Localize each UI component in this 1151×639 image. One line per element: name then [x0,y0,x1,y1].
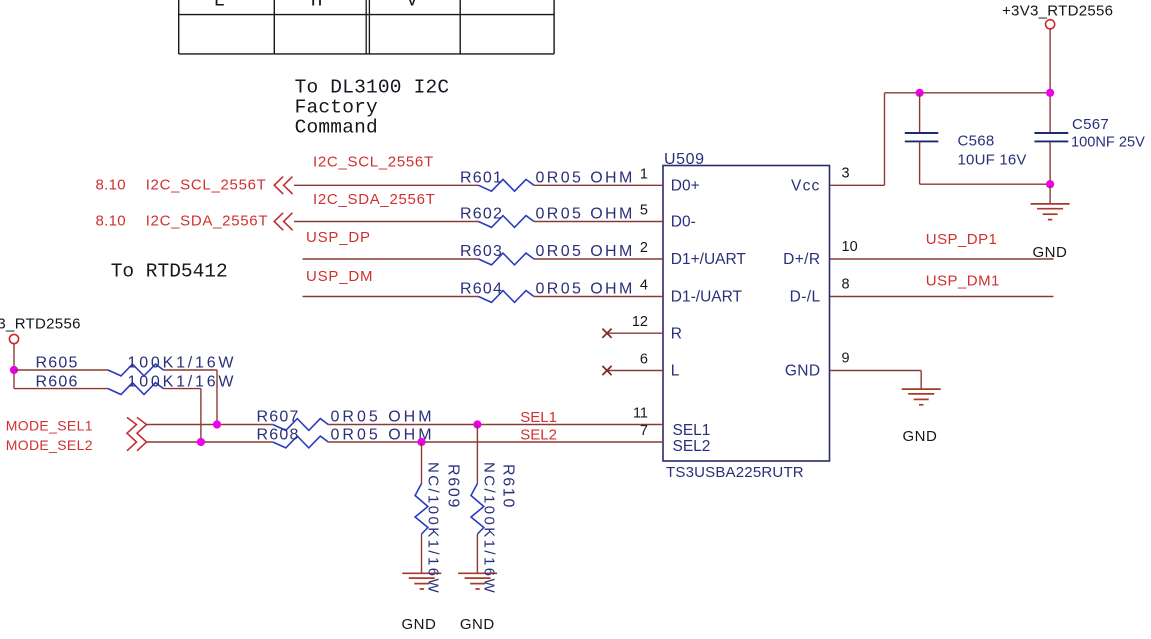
svg-text:GND: GND [402,616,437,633]
svg-text:0R05 OHM: 0R05 OHM [536,243,635,260]
svg-text:9: 9 [842,351,850,367]
svg-text:R604: R604 [460,281,503,298]
svg-text:R602: R602 [460,206,503,223]
svg-text:SEL2: SEL2 [673,438,711,455]
svg-text:R601: R601 [460,169,503,186]
svg-text:I2C_SDA_2556T: I2C_SDA_2556T [313,191,436,208]
svg-text:100K1/16W: 100K1/16W [128,355,237,372]
svg-text:H: H [311,0,323,12]
svg-text:To DL3100 I2C: To DL3100 I2C [295,77,450,99]
svg-text:SEL1: SEL1 [673,422,711,439]
svg-text:USP_DM1: USP_DM1 [926,273,1000,290]
svg-text:R605: R605 [36,355,79,372]
svg-text:L: L [671,363,680,380]
svg-text:R606: R606 [36,373,79,390]
svg-text:4: 4 [640,278,648,294]
svg-text:D1+/UART: D1+/UART [671,251,747,268]
svg-text:100K1/16W: 100K1/16W [128,373,237,390]
svg-text:TS3USBA225RUTR: TS3USBA225RUTR [666,464,804,481]
svg-text:MODE_SEL2: MODE_SEL2 [6,437,93,453]
svg-text:11: 11 [633,406,648,422]
svg-text:0R05 OHM: 0R05 OHM [331,409,435,426]
svg-text:6: 6 [640,352,648,368]
svg-text:0R05 OHM: 0R05 OHM [536,169,635,186]
svg-text:SEL2: SEL2 [520,427,557,444]
svg-text:D0-: D0- [671,214,696,231]
svg-text:0R05 OHM: 0R05 OHM [536,281,635,298]
svg-text:8.10: 8.10 [96,213,126,230]
svg-text:7: 7 [640,423,648,439]
svg-text:D+/R: D+/R [783,251,820,268]
svg-text:D0+: D0+ [671,178,700,195]
svg-text:D1-/UART: D1-/UART [671,289,743,306]
svg-text:I2C_SCL_2556T: I2C_SCL_2556T [313,154,434,171]
svg-text:1: 1 [640,166,648,182]
svg-text:GND: GND [460,616,495,633]
svg-text:I2C_SDA_2556T: I2C_SDA_2556T [146,213,269,230]
svg-text:USP_DM: USP_DM [306,268,373,285]
svg-text:2: 2 [640,240,648,256]
svg-text:R609: R609 [444,464,461,509]
svg-text:V: V [406,0,418,12]
svg-text:8.10: 8.10 [96,177,126,194]
svg-text:R603: R603 [460,243,503,260]
svg-text:12: 12 [632,314,648,330]
svg-text:USP_DP1: USP_DP1 [926,231,998,248]
svg-text:MODE_SEL1: MODE_SEL1 [6,418,93,434]
svg-text:GND: GND [903,428,938,445]
svg-text:3: 3 [842,165,850,181]
svg-text:Factory: Factory [295,97,378,119]
svg-text:U509: U509 [664,151,705,168]
svg-text:To RTD5412: To RTD5412 [111,261,228,283]
svg-text:I2C_SCL_2556T: I2C_SCL_2556T [146,177,267,194]
svg-text:SEL1: SEL1 [520,409,557,426]
svg-text:10UF 16V: 10UF 16V [958,152,1027,169]
svg-text:NC/100K1/16W: NC/100K1/16W [424,462,441,595]
svg-text:Command: Command [295,117,378,139]
svg-text:D-/L: D-/L [790,289,821,306]
svg-text:NC/100K1/16W: NC/100K1/16W [480,462,497,595]
svg-text:10: 10 [842,239,858,255]
svg-text:R607: R607 [257,409,300,426]
svg-text:Vcc: Vcc [791,178,820,195]
svg-text:+3V3_RTD2556: +3V3_RTD2556 [1002,2,1113,19]
svg-text:R608: R608 [257,426,300,443]
svg-text:R: R [671,325,682,342]
svg-text:R610: R610 [499,464,516,509]
svg-text:GND: GND [785,363,821,380]
svg-text:C567: C567 [1072,116,1109,133]
svg-text:5: 5 [640,203,648,219]
svg-text:C568: C568 [958,132,995,149]
svg-text:L: L [213,0,225,12]
svg-text:+3V3_RTD2556: +3V3_RTD2556 [0,316,81,333]
svg-text:8: 8 [842,277,850,293]
svg-text:0R05 OHM: 0R05 OHM [536,206,635,223]
svg-text:USP_DP: USP_DP [306,229,371,246]
svg-text:100NF 25V: 100NF 25V [1071,134,1145,150]
